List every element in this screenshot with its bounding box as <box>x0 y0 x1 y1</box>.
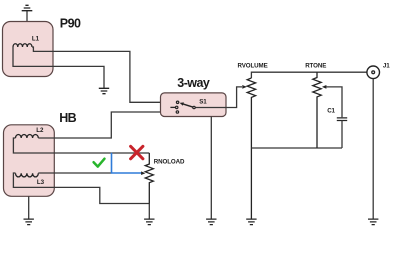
wire HB case to ground <box>28 196 30 219</box>
throw lower contact <box>176 111 178 113</box>
bottom rail wire (RVOL bottom to RTONE/C1) <box>251 147 342 149</box>
inductor L3 <box>16 173 45 186</box>
wire switch common to RVOLUME wiper <box>196 87 243 108</box>
3-way switch box <box>161 93 227 117</box>
svg-text:L3: L3 <box>37 179 45 186</box>
RVOLUME wiper arrow <box>242 85 247 89</box>
wire L3 return to ground rail <box>13 173 149 204</box>
wire L1 hot to switch upper throw <box>32 47 176 102</box>
jack J1 <box>367 63 390 79</box>
wire L1 return to ground <box>13 47 104 88</box>
ground (switch) <box>206 219 216 225</box>
lever arm with arrowhead <box>183 104 193 107</box>
svg-text:J1: J1 <box>383 63 390 70</box>
svg-text:L1: L1 <box>32 36 40 43</box>
svg-text:RNOLOAD: RNOLOAD <box>154 159 185 166</box>
ground (HB) <box>24 219 34 225</box>
throw middle contact + stub <box>170 106 175 108</box>
svg-text:C1: C1 <box>327 108 335 115</box>
svg-text:RTONE: RTONE <box>305 62 326 69</box>
top output bus wire <box>251 72 366 78</box>
wire L2 hot to switch lower throw <box>38 112 177 138</box>
svg-text:P90: P90 <box>60 17 81 31</box>
svg-text:L2: L2 <box>36 127 44 134</box>
svg-text:RVOLUME: RVOLUME <box>238 62 268 69</box>
wire switch case to ground <box>210 117 212 220</box>
ground (P90 return) <box>99 88 109 93</box>
red X mark <box>131 146 143 159</box>
svg-text:HB: HB <box>59 111 76 125</box>
switch S1 <box>170 99 207 114</box>
ground (RNOLOAD) <box>144 219 154 225</box>
wire L3 hot to wiper node <box>38 172 111 174</box>
RNOLOAD wiper arrow <box>141 171 145 175</box>
ground (RVOLUME) <box>246 219 256 225</box>
svg-text:3-way: 3-way <box>177 76 210 90</box>
inductor L2 <box>16 127 44 138</box>
wire L2 return to RNOLOAD top <box>13 138 149 153</box>
ground top (P90 case ground) <box>22 5 33 21</box>
wire RNOLOAD bottom to ground <box>148 204 150 220</box>
capacitor C1 <box>327 108 347 121</box>
blue jumper wire (no-load mod) <box>112 153 142 173</box>
inductor L1 <box>13 36 40 47</box>
RTONE wiper arrow and wire to C1 <box>322 85 342 117</box>
green checkmark <box>94 159 105 167</box>
resistor RVOLUME (pot) <box>238 62 268 219</box>
throw upper contact <box>176 101 178 103</box>
resistor RNOLOAD (pot) <box>145 153 185 204</box>
common contact <box>193 106 195 108</box>
wire C1 bottom to rail <box>341 121 343 149</box>
resistor RTONE (pot) <box>305 62 326 148</box>
ground (J1) <box>368 219 378 225</box>
svg-text:S1: S1 <box>199 99 207 106</box>
P90 pickup box <box>3 22 54 77</box>
wire J1 sleeve to ground <box>372 79 374 219</box>
HB pickup box <box>4 125 55 197</box>
